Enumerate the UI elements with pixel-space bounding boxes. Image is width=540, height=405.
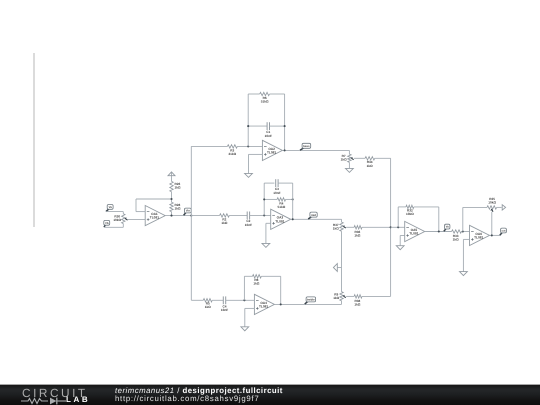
op-amp OA2 — [262, 140, 282, 160]
svg-text:10nF: 10nF — [273, 191, 280, 195]
wire bus to R2 — [191, 214, 219, 216]
label R5 1k — [205, 302, 211, 310]
wire C1 right segment — [270, 125, 285, 127]
wire R33 to OA6 inverting input — [462, 231, 470, 233]
wire OA1 feedback left vertical — [135, 199, 137, 212]
wire OA5 feedback left segment — [398, 206, 406, 208]
op-amp OA6 — [470, 225, 490, 245]
wire distribution bus vertical — [190, 146, 192, 300]
wire R5 to C4 — [212, 299, 223, 301]
capacitor C1 — [266, 122, 268, 130]
node summing bus junction — [390, 226, 392, 228]
label C4 10nF — [221, 305, 228, 313]
wire feedback right segment — [261, 275, 280, 277]
node C1 right junction — [284, 125, 286, 127]
wire R37 wiper to R36 — [346, 226, 354, 228]
wire input Va to pot R30 — [106, 211, 123, 213]
potentiometer R7 body — [348, 154, 351, 162]
svg-text:TL081: TL081 — [409, 232, 418, 236]
flag Vb — [104, 220, 110, 227]
svg-text:10kΩ: 10kΩ — [113, 218, 121, 222]
svg-text:10nF: 10nF — [265, 134, 272, 138]
potentiometer R9 wiper — [343, 295, 345, 297]
potentiometer R37 wiper — [343, 225, 345, 227]
label R30 10k — [113, 214, 121, 222]
resistor R38 — [354, 295, 362, 298]
node OA3 summing junction — [263, 214, 265, 216]
wire R26 to R28 — [171, 192, 173, 202]
wire R28 bottom stub — [171, 212, 173, 216]
label R9 1k — [333, 292, 339, 300]
label R8 1k — [253, 278, 259, 286]
power supply arrow VCC — [168, 172, 175, 176]
credit line 2 — [115, 394, 259, 403]
wire C3 right segment — [278, 182, 293, 184]
label C2 10nF — [245, 219, 252, 227]
wire OA2 output to pot R7 — [282, 149, 349, 151]
label R6 51k — [261, 96, 269, 104]
wire OA3 non-inverting stub — [266, 222, 271, 224]
wire OA5 non-inverting stub — [400, 235, 405, 237]
svg-text:Va: Va — [109, 206, 113, 209]
wire R7 wiper to R34 — [354, 157, 365, 159]
resistor R34 — [365, 157, 375, 160]
node R4 left junction — [263, 198, 265, 200]
svg-text:1kΩ: 1kΩ — [367, 164, 373, 168]
wire feedback top right segment — [270, 93, 285, 95]
wire pot R30 bottom stub — [122, 224, 124, 228]
resistor R2 — [220, 214, 230, 217]
potentiometer R25 wiper — [490, 209, 493, 211]
resistor R5 — [203, 299, 212, 302]
svg-text:10nF: 10nF — [245, 223, 252, 227]
label R38 1k — [354, 299, 360, 307]
potentiometer R30 wiper — [124, 217, 126, 219]
svg-text:TL081: TL081 — [150, 216, 159, 220]
svg-text:1kΩ: 1kΩ — [175, 186, 181, 190]
wire R9 wiper to R38 — [346, 295, 354, 297]
potentiometer R9 body — [340, 292, 343, 301]
ground pot R7 — [346, 168, 354, 172]
op-amp OA4 — [254, 294, 274, 314]
resistor R4 — [277, 198, 286, 201]
node OA1 output junction — [170, 215, 172, 217]
node bus input junction — [190, 215, 192, 217]
svg-text:TL081: TL081 — [275, 219, 284, 223]
wire pot R37 top stub — [341, 219, 343, 222]
wire OA6 feedback left segment — [463, 206, 487, 208]
node OA4 summing junction — [243, 299, 245, 301]
svg-text:10kΩ: 10kΩ — [406, 212, 414, 216]
node C1 left junction — [247, 125, 249, 127]
label R2 1k — [221, 218, 227, 226]
flag mid — [308, 212, 317, 219]
ground pot common (rotated) — [333, 264, 337, 272]
wire OA3 feedback left vertical — [263, 183, 265, 215]
wire pot R9 bottom stub — [341, 301, 343, 305]
wire summing bus vertical — [390, 158, 392, 296]
label R7 1k — [341, 154, 347, 162]
wire OA6 ground stem — [462, 239, 464, 271]
wire pot R30 top stub — [122, 212, 124, 214]
wire R25 wiper to OA6 output — [491, 212, 493, 236]
ground stub between pots — [338, 267, 342, 269]
wire OA4 feedback right vertical — [280, 276, 282, 304]
left margin rule — [33, 53, 35, 227]
resistor R33 — [452, 230, 462, 233]
resistor R32 — [406, 205, 414, 208]
potentiometer R7 wiper — [351, 157, 353, 159]
wire C3 left segment — [264, 182, 274, 184]
wire pot R7 top stub — [348, 150, 350, 154]
ground OA5 — [396, 246, 404, 250]
svg-text:1kΩ: 1kΩ — [453, 238, 459, 242]
flag Va — [106, 205, 113, 212]
svg-text:bass: bass — [303, 144, 310, 148]
node OA5 feedback tap — [397, 226, 399, 228]
CircuitLab logo schematic doodle — [21, 396, 71, 405]
wire R4 left segment — [264, 198, 277, 200]
wire OA2 feedback right vertical — [284, 94, 286, 150]
svg-text:1kΩ: 1kΩ — [333, 227, 339, 231]
wire pot R7 to ground — [348, 162, 350, 168]
svg-text:Vo: Vo — [446, 226, 450, 229]
wire R30 wiper to OA1 non-inverting input — [128, 219, 145, 221]
wire OA3 feedback right vertical — [292, 183, 294, 219]
wire OA5 feedback left vertical — [397, 207, 399, 227]
wire OA6 feedback left vertical — [462, 207, 464, 231]
op-amp OA5 — [405, 221, 425, 241]
resistor R28 — [170, 202, 173, 212]
flag Vin — [184, 208, 192, 215]
node OA3 output junction — [292, 218, 294, 220]
svg-text:1kΩ: 1kΩ — [205, 305, 211, 309]
wire OA1 output to bus — [166, 215, 192, 217]
node OA2 summing junction — [247, 145, 249, 147]
label R4 51k — [278, 202, 286, 210]
wire C2 to OA3 inverting input — [250, 214, 271, 216]
resistor R26 — [170, 181, 173, 191]
wire OA1 inverting input stub — [136, 211, 145, 213]
power supply arrow VCC right — [502, 205, 505, 210]
svg-text:TL081: TL081 — [259, 305, 268, 309]
potentiometer R30 body — [122, 214, 125, 224]
wire summing bus to OA5 inverting input — [391, 226, 405, 228]
svg-text:1kΩ: 1kΩ — [354, 233, 360, 237]
label C3 10nF — [273, 187, 280, 195]
flag Vo — [444, 224, 450, 231]
ground OA2 — [245, 173, 253, 177]
label R33 1k — [453, 234, 459, 242]
potentiometer R37 body — [340, 222, 343, 231]
wire feedback top left segment — [248, 93, 260, 95]
wire input Vb to pot R30 — [104, 226, 123, 228]
resistor R3 — [227, 145, 237, 148]
wire R38 to summing bus — [362, 295, 391, 297]
wire OA4 ground stem — [244, 308, 246, 326]
wire OA6 output — [490, 234, 501, 236]
CircuitLab logo LAB — [66, 395, 90, 404]
label R36 1k — [354, 230, 360, 238]
resistor R8 — [253, 275, 262, 278]
flag treble — [305, 297, 316, 304]
wire R25 to VCC arrow — [497, 206, 502, 208]
node OA5 output junction — [438, 230, 440, 232]
svg-text:Vin: Vin — [186, 210, 190, 213]
wire R4 right segment — [286, 198, 293, 200]
svg-text:1kΩ: 1kΩ — [221, 221, 227, 225]
ground OA3 — [262, 243, 270, 247]
wire bus to R5 — [191, 299, 203, 301]
label C1 10nF — [265, 130, 272, 138]
label R37 1k — [333, 223, 339, 231]
flag out — [500, 228, 507, 235]
potentiometer R25 body — [487, 206, 497, 209]
wire R2 to C2 — [229, 214, 247, 216]
wire OA2 feedback left vertical — [247, 94, 249, 146]
svg-text:51kΩ: 51kΩ — [278, 205, 286, 209]
wire OA1 feedback horizontal — [136, 198, 172, 200]
capacitor C2 — [246, 212, 248, 220]
wire C4 to OA4 inverting input — [226, 299, 255, 301]
CircuitLab logo wordmark — [22, 386, 88, 400]
capacitor C3 — [275, 179, 277, 187]
wire OA5 ground stem — [399, 236, 401, 246]
svg-text:1kΩ: 1kΩ — [341, 158, 347, 162]
ground OA6 — [460, 272, 468, 276]
svg-text:10nF: 10nF — [221, 308, 228, 312]
wire R36 to summing bus — [362, 226, 391, 228]
label R26 1k — [175, 182, 181, 190]
wire OA5 feedback right segment — [414, 206, 439, 208]
logo diode — [50, 397, 57, 404]
wire OA5 output to R33 — [425, 231, 452, 233]
wire C1 left segment — [248, 125, 267, 127]
op-amp OA1 — [145, 206, 165, 226]
svg-text:treble: treble — [307, 298, 315, 302]
node feedback junction R26/R28 — [170, 198, 172, 200]
wire pot common ground line — [341, 231, 343, 292]
credit line 1 — [115, 386, 283, 395]
node R4 right junction — [292, 198, 294, 200]
wire bus to R3 — [191, 145, 227, 147]
svg-text:TL081: TL081 — [474, 236, 483, 240]
node OA4 output junction — [280, 303, 282, 305]
svg-text:1kΩ: 1kΩ — [354, 303, 360, 307]
label R25 10k — [488, 197, 496, 205]
svg-text:1kΩ: 1kΩ — [253, 282, 259, 286]
svg-text:10kΩ: 10kΩ — [488, 201, 496, 205]
label R28 1k — [175, 203, 181, 211]
svg-text:1kΩ: 1kΩ — [175, 206, 181, 210]
resistor R6 — [260, 92, 270, 95]
wire R26 top stub to VCC — [171, 172, 173, 181]
resistor R36 — [354, 226, 362, 229]
wire feedback left segment — [244, 275, 252, 277]
label R3 31k — [228, 148, 236, 156]
wire OA6 non-inverting stub — [463, 238, 469, 240]
svg-text:31kΩ: 31kΩ — [228, 152, 236, 156]
op-amp OA3 — [271, 209, 291, 229]
wire OA3 output to pot R37 — [291, 218, 342, 220]
logo wire left — [21, 398, 48, 403]
wire OA2 ground stem — [248, 154, 250, 173]
node OA2 output junction — [284, 149, 286, 151]
wire R3 to OA2 inverting input — [237, 145, 262, 147]
wire OA2 non-inverting stub — [249, 153, 263, 155]
svg-text:TL081: TL081 — [267, 151, 276, 155]
wire OA4 output to pot R9 — [274, 303, 341, 305]
wire OA3 ground stem — [265, 223, 267, 243]
svg-text:51kΩ: 51kΩ — [261, 99, 269, 103]
wire OA5 feedback right vertical — [438, 207, 440, 232]
ground OA4 — [241, 327, 249, 331]
svg-text:out: out — [502, 230, 506, 233]
svg-text:Vb: Vb — [105, 222, 109, 225]
wire R34 to summing bus — [375, 157, 391, 159]
svg-text:1kΩ: 1kΩ — [333, 296, 339, 300]
svg-text:mid: mid — [311, 213, 316, 217]
capacitor C4 — [222, 296, 224, 304]
label R34 1k — [367, 160, 373, 168]
label R32 10k — [406, 208, 414, 216]
wire OA4 non-inverting stub — [245, 307, 255, 309]
node OA6 output junction — [491, 234, 493, 236]
wire OA4 feedback left vertical — [243, 276, 245, 300]
node OA6 feedback tap — [462, 230, 464, 232]
flag bass — [300, 143, 311, 150]
